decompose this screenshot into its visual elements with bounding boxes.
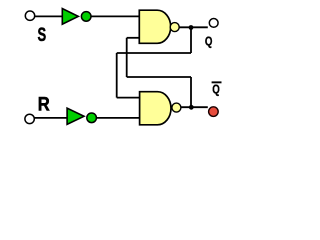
inverter (S) (62, 9, 78, 25)
label Q-bar overbar (212, 81, 222, 83)
NAND gate U1 bubble (170, 23, 179, 32)
wire R pin to inverter (34, 117, 67, 119)
wire feedback A horizontal (117, 52, 191, 54)
junction node at U2 output (189, 105, 194, 110)
junction node at U1 output (189, 25, 194, 30)
svg-text:Q: Q (205, 35, 213, 48)
wire inverter to NAND U2 input 2 (96, 117, 140, 119)
wire U1 output (179, 26, 208, 28)
input pin S (25, 11, 34, 20)
node R' state dot (green) (87, 113, 97, 123)
wire feedback B horizontal (127, 76, 191, 78)
wire U2 output (181, 106, 208, 108)
wire feedback A vertical left (116, 53, 118, 98)
NAND gate U2 body (140, 92, 171, 125)
wire S pin to inverter (35, 15, 63, 17)
svg-text:R: R (38, 92, 50, 115)
input pin R (25, 114, 34, 123)
output pin Q (209, 19, 218, 28)
svg-text:S: S (38, 23, 47, 45)
wire feedback B vertical left (126, 38, 128, 77)
wire inverter to NAND U1 input 1 (91, 15, 140, 17)
wire feedback B into U1 input 2 (127, 37, 140, 39)
svg-text:Q: Q (212, 84, 220, 97)
wire feedback B vertical from U2 junction (190, 77, 192, 107)
wire feedback A vertical from U1 junction (190, 28, 192, 54)
NAND gate U1 body (139, 10, 170, 43)
inverter (R) (67, 108, 84, 124)
NAND gate U2 bubble (172, 103, 181, 112)
node S' state dot (green) (81, 12, 91, 22)
wire feedback A into U2 input 1 (117, 97, 141, 99)
output pin Q-bar (red, logic 0) (209, 107, 219, 117)
